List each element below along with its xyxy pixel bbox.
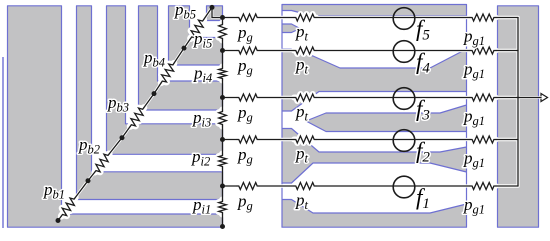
black wires	[58, 216, 61, 221]
gray block A + bottom strip	[8, 6, 223, 227]
gray strip B5	[207, 6, 223, 21]
gray strip B1 (L-shape)	[77, 6, 223, 200]
node dots	[56, 218, 61, 223]
gray strip B4 (L-shape)	[169, 6, 223, 65]
halos	[58, 216, 61, 221]
gray strip B2 (L-shape)	[107, 6, 223, 155]
flow source f5	[393, 8, 415, 30]
flow source f3	[393, 88, 415, 110]
gray strip B3 (L-shape)	[139, 6, 223, 110]
output arrow	[541, 94, 548, 102]
chip outline (left edge)	[2, 57, 4, 228]
right chip block with channels (evenodd holes)	[282, 5, 467, 228]
flow source f1	[393, 176, 415, 198]
flow source f2	[393, 130, 415, 152]
right gray block 2	[498, 6, 539, 227]
flow source f4	[393, 41, 415, 63]
